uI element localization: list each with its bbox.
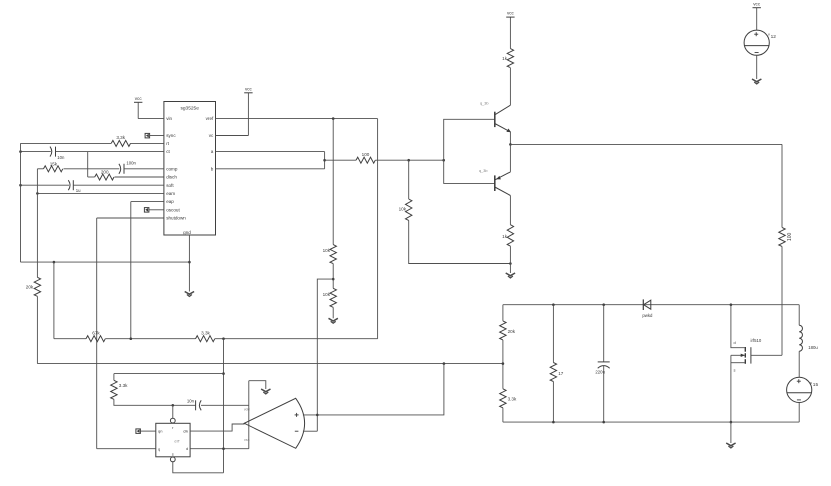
node rail cap xyxy=(602,303,605,306)
svg-text:1k: 1k xyxy=(502,56,508,61)
wire d row xyxy=(190,448,249,450)
wire 100 to base rail xyxy=(375,159,443,161)
node d-s junction xyxy=(222,447,225,450)
wire cap to opamp rail xyxy=(201,404,249,406)
node soft-left rail xyxy=(19,184,22,187)
wire a row xyxy=(216,151,325,153)
svg-text:d: d xyxy=(186,446,188,451)
node ct-left rail xyxy=(19,150,22,153)
svg-text:sg3525e: sg3525e xyxy=(180,105,199,111)
wire soft row right xyxy=(73,184,164,186)
svg-text:20k: 20k xyxy=(26,284,34,289)
diode D1 pwkd xyxy=(642,299,653,318)
flipflop U2 d ff xyxy=(156,418,190,462)
node vref divider tap xyxy=(332,117,335,120)
wire 3.3k vert upper stub xyxy=(113,374,115,381)
wire gnd stem pushpull xyxy=(509,264,511,274)
svg-text:10n: 10n xyxy=(57,155,65,160)
wire 3.3k to row405 xyxy=(114,399,195,405)
svg-text:gnd: gnd xyxy=(183,230,191,235)
svg-text:3.3k: 3.3k xyxy=(119,383,128,388)
wire Q2 emitter up xyxy=(509,144,511,172)
svg-text:vref: vref xyxy=(206,116,214,121)
wire r17 upper xyxy=(552,305,554,363)
capacitor C 220u xyxy=(595,362,609,375)
node 223 rail on 67k row xyxy=(222,337,225,340)
wire divider leg lower xyxy=(502,408,504,422)
port qn xyxy=(136,429,141,434)
svg-text:17: 17 xyxy=(558,371,564,376)
node 223 row373 xyxy=(222,372,225,375)
node 67k rail on gnd row xyxy=(53,261,56,264)
svg-text:vcc: vcc xyxy=(507,11,515,16)
wire vc xyxy=(216,135,249,137)
ground V12 xyxy=(752,79,761,84)
capacitor C_comp 100n xyxy=(119,161,137,174)
node bottom cap xyxy=(602,421,605,424)
resistor R 67k xyxy=(86,331,105,342)
svg-text:10k: 10k xyxy=(399,207,407,212)
ground divider xyxy=(329,318,338,323)
wire vref drop vertical xyxy=(377,119,379,339)
svg-text:pwkd: pwkd xyxy=(642,313,653,318)
svg-text:sync: sync xyxy=(166,133,176,138)
inductor L 180u xyxy=(799,325,818,351)
wire eap row xyxy=(131,201,164,203)
power vcc (pushpull) xyxy=(506,11,514,18)
svg-text:oscout: oscout xyxy=(166,207,180,212)
wire 100 to gate xyxy=(781,246,783,355)
wire divider upper vertical xyxy=(332,119,334,245)
wire ct row right xyxy=(56,151,164,153)
wire base rail xyxy=(444,119,495,183)
capacitor C_ct 10n xyxy=(50,147,65,160)
svg-text:vcc: vcc xyxy=(135,96,143,101)
svg-text:12: 12 xyxy=(771,34,777,40)
wire r17 lower xyxy=(552,382,554,423)
svg-text:s: s xyxy=(734,368,736,373)
resistor R_comp 15k xyxy=(44,162,63,172)
svg-text:q: q xyxy=(158,446,160,451)
transistor M1 irf510 (nmos) xyxy=(731,305,782,422)
power vcc (vin) xyxy=(134,96,142,119)
wire opamp gnd bracket xyxy=(249,381,266,389)
node ab mid xyxy=(323,159,326,162)
capacitor C 10n (ff) xyxy=(187,399,201,411)
svg-text:soft: soft xyxy=(166,183,174,188)
wire rt row right segment xyxy=(131,142,164,144)
wire row373 xyxy=(114,373,224,375)
svg-text:vin: vin xyxy=(166,116,172,121)
wire b row xyxy=(216,168,325,170)
node bottom r17 xyxy=(552,421,555,424)
node pushpull gnd rail xyxy=(509,262,512,265)
resistor R 100 (drive) xyxy=(356,152,375,163)
svg-text:100n: 100n xyxy=(126,161,136,166)
wire divider gnd stem xyxy=(332,307,334,318)
wire long tap row xyxy=(37,363,503,365)
wire oscout xyxy=(149,209,164,211)
svg-text:vc: vc xyxy=(209,133,214,138)
resistor R 17 xyxy=(550,363,564,382)
resistor R 10k (divider lower) xyxy=(323,288,337,307)
svg-text:qn: qn xyxy=(158,429,162,434)
wire 1k lower to rail xyxy=(509,246,511,263)
wire comp corner xyxy=(37,168,43,170)
svg-text:67k: 67k xyxy=(92,331,100,336)
wire output top rail xyxy=(503,304,799,306)
wire cap220 lower xyxy=(603,366,605,422)
wire s loop xyxy=(173,462,224,473)
svg-text:3.3k: 3.3k xyxy=(116,135,125,140)
wire Q2 collector down xyxy=(509,196,511,225)
svg-text:q_3b: q_3b xyxy=(480,102,488,106)
wire rt row left segment xyxy=(21,142,112,144)
node rail mosfet xyxy=(730,303,733,306)
svg-text:shutdown: shutdown xyxy=(166,216,186,221)
wire left rail vertical xyxy=(20,143,22,262)
svg-text:15: 15 xyxy=(813,382,819,388)
op-amp U3 xyxy=(244,381,305,449)
wire divider leg upper xyxy=(502,305,504,321)
node eap on 67k row xyxy=(130,337,133,340)
wire disch row xyxy=(115,176,164,178)
svg-text:irf510: irf510 xyxy=(751,338,762,343)
wire 20k to tap row xyxy=(36,296,38,363)
wire 67k row left xyxy=(54,338,86,340)
ground IC xyxy=(185,292,194,297)
wire mosfet gnd stem xyxy=(730,422,732,443)
resistor R 10k (pulldown) xyxy=(399,199,412,220)
svg-text:100: 100 xyxy=(362,152,370,157)
wire comp right xyxy=(124,168,164,170)
svg-text:100: 100 xyxy=(787,233,793,242)
wire 67k row mid xyxy=(105,338,195,340)
wire minus input xyxy=(303,430,317,432)
wire ct row left xyxy=(21,151,51,153)
svg-text:comp: comp xyxy=(166,166,178,171)
transistor Q1 q_3b (npn) xyxy=(480,102,511,133)
wire bottom rail xyxy=(503,421,799,423)
wire vref row xyxy=(216,118,378,120)
resistor R 100 (gate) xyxy=(779,227,793,246)
wire output row xyxy=(510,143,782,145)
wire eam row xyxy=(37,192,163,194)
ground pushpull xyxy=(506,273,515,278)
resistor R 3.3k (row) xyxy=(196,331,215,342)
svg-text:disch: disch xyxy=(166,175,177,180)
node plus-feedback on tap row xyxy=(443,362,446,365)
wire 67k rail vertical xyxy=(53,262,55,339)
node divider mid xyxy=(332,278,335,281)
node base rail junction xyxy=(442,159,445,162)
resistor R 20k (out divider) xyxy=(500,321,516,340)
wire v15 bottom xyxy=(798,403,800,423)
node gnd row junction xyxy=(188,261,191,264)
svg-text:10k: 10k xyxy=(323,248,331,253)
transistor Q2 q_3b (pnp) xyxy=(479,169,510,196)
svg-text:15k: 15k xyxy=(50,162,58,167)
voltage source V12 xyxy=(744,2,776,79)
node out tap xyxy=(502,362,505,365)
svg-text:q_3b: q_3b xyxy=(479,169,487,173)
wire comp mid xyxy=(64,168,120,170)
svg-text:1k: 1k xyxy=(502,234,508,239)
wire ab to 100 xyxy=(325,159,356,161)
resistor R 1k (lower) xyxy=(502,225,513,246)
node ff r stem xyxy=(172,404,175,407)
wire plus input xyxy=(303,364,444,415)
power vcc (vc) xyxy=(244,87,252,136)
svg-text:eap: eap xyxy=(166,199,174,204)
ground mosfet xyxy=(726,443,735,448)
wire 1k to vcc xyxy=(509,17,511,48)
svg-text:20k: 20k xyxy=(508,329,516,334)
wire 10k pulldown lower xyxy=(409,220,511,263)
wire comp-eam rail upper xyxy=(36,169,38,277)
IC U1 sg3525e xyxy=(164,102,216,236)
wire divider mid xyxy=(332,264,334,289)
wire 10k pulldown upper xyxy=(408,160,410,199)
svg-text:10k: 10k xyxy=(323,292,331,297)
wire 67k row right to vref drop xyxy=(215,338,378,340)
wire shutdown vertical xyxy=(96,218,98,449)
ground opamp xyxy=(261,389,270,394)
resistor R 3.3k (out divider) xyxy=(500,389,517,408)
resistor R_rt 3.3k xyxy=(111,135,130,147)
port sync xyxy=(145,133,150,138)
wire Q1 collector up xyxy=(509,68,511,105)
wire vin xyxy=(138,118,164,120)
svg-text:3.3k: 3.3k xyxy=(508,396,517,401)
svg-text:eam: eam xyxy=(166,191,175,196)
wire cap220 upper xyxy=(603,305,605,362)
voltage source V15 xyxy=(787,377,819,402)
wire 223 rail vertical xyxy=(223,339,225,473)
node output xyxy=(509,143,512,146)
wire disch left stub xyxy=(88,176,95,178)
svg-text:vss: vss xyxy=(244,438,250,442)
svg-text:a: a xyxy=(211,149,214,154)
svg-text:3.3k: 3.3k xyxy=(201,331,210,336)
wire soft row left xyxy=(21,184,70,186)
wire Q1 emitter down xyxy=(509,132,511,145)
wire ct to 200 vertical xyxy=(87,152,89,177)
svg-text:10n: 10n xyxy=(187,399,195,404)
svg-text:d: d xyxy=(734,340,736,345)
wire output down to 100 xyxy=(781,144,783,227)
svg-text:vcc: vcc xyxy=(245,87,253,92)
svg-text:180u: 180u xyxy=(808,345,818,350)
resistor R 1k (upper) xyxy=(502,49,513,68)
resistor R 20k (left) xyxy=(26,277,41,296)
wire IC gnd stem xyxy=(188,235,190,292)
capacitor C_soft 1u xyxy=(68,180,81,193)
wire a-b join vertical xyxy=(324,152,326,169)
svg-text:vcc: vcc xyxy=(753,2,761,7)
wire inductor to source xyxy=(798,351,800,377)
wire shutdown row xyxy=(97,217,164,219)
svg-text:200: 200 xyxy=(101,170,109,175)
node source rail xyxy=(730,421,733,424)
node minus cross xyxy=(316,414,319,417)
svg-text:clk: clk xyxy=(183,429,188,434)
resistor R 10k (divider upper) xyxy=(323,245,337,264)
resistor R 3.3k (ff) xyxy=(111,380,128,399)
wire sync xyxy=(149,135,164,137)
svg-text:s: s xyxy=(172,451,174,456)
node 10k pulldown junction xyxy=(407,159,410,162)
node eam junction xyxy=(36,192,39,195)
svg-text:vdd: vdd xyxy=(244,408,250,412)
port oscout xyxy=(144,208,149,213)
wire q row xyxy=(97,448,156,450)
wire clk row xyxy=(190,424,245,431)
wire ff r stem xyxy=(172,405,174,418)
wire eap vertical xyxy=(130,202,132,339)
wire qn stub xyxy=(140,430,156,432)
wire divider jog xyxy=(317,279,333,431)
wire inductor top stub xyxy=(798,305,800,326)
svg-text:b: b xyxy=(211,166,214,171)
wire gnd row xyxy=(21,261,190,263)
svg-text:1u: 1u xyxy=(76,188,81,193)
node rail r17 xyxy=(552,303,555,306)
wire divider leg mid xyxy=(502,340,504,389)
resistor R_disch 200 xyxy=(95,170,114,180)
